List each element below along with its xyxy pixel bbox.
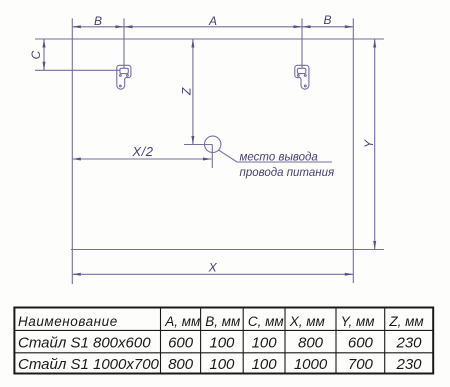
table vertical lines	[14, 308, 433, 374]
mirror top edge	[35, 38, 384, 40]
mirror bottom edge	[71, 249, 384, 251]
circle level tick	[184, 144, 212, 146]
C extension line	[35, 69, 120, 71]
table grid	[14, 308, 433, 374]
svg-text:100: 100	[209, 356, 235, 373]
svg-text:провода питания: провода питания	[240, 167, 335, 179]
svg-text:Z, мм: Z, мм	[388, 314, 423, 329]
svg-text:800: 800	[168, 356, 194, 373]
svg-text:600: 600	[348, 335, 374, 352]
arrows Y	[373, 39, 376, 48]
svg-text:Наименование: Наименование	[18, 314, 118, 329]
mirror left edge	[71, 18, 73, 284]
svg-text:1000: 1000	[294, 356, 328, 373]
svg-text:700: 700	[348, 356, 374, 373]
svg-text:230: 230	[395, 356, 422, 373]
cable outlet circle	[205, 136, 221, 152]
table text	[18, 314, 424, 329]
left bracket center line	[123, 18, 125, 68]
svg-text:Y, мм: Y, мм	[341, 314, 375, 329]
svg-text:A, мм: A, мм	[164, 314, 200, 329]
table outer border	[14, 308, 433, 374]
Z dimension line	[192, 39, 194, 145]
svg-text:X/2: X/2	[131, 144, 153, 159]
svg-text:C: C	[29, 50, 43, 59]
dimension labels	[29, 13, 376, 275]
X dimension line	[72, 273, 353, 275]
svg-text:Z: Z	[180, 87, 194, 96]
svg-text:место вывода: место вывода	[240, 152, 318, 164]
svg-text:A: A	[208, 14, 217, 28]
right mounting bracket (mirrored)	[295, 65, 309, 89]
svg-text:X, мм: X, мм	[289, 314, 325, 329]
svg-text:X: X	[208, 261, 218, 275]
svg-text:Стайл S1 800x600: Стайл S1 800x600	[18, 335, 151, 352]
top dimension line B-A-B	[72, 26, 353, 28]
arrows Z	[191, 39, 194, 48]
leader line	[219, 150, 332, 162]
line below circle	[211, 145, 213, 169]
svg-text:B, мм: B, мм	[205, 314, 240, 329]
X/2 dimension line	[72, 158, 211, 160]
arrow B left	[72, 25, 81, 28]
arrows at right bracket	[294, 25, 303, 28]
arrows at left bracket	[116, 25, 125, 28]
arrows	[43, 25, 377, 275]
arrows X/2	[72, 158, 81, 161]
svg-text:Стайл S1 1000x700: Стайл S1 1000x700	[18, 356, 160, 373]
svg-text:B: B	[323, 13, 331, 27]
table horizontal lines	[14, 329, 433, 331]
arrow B right	[345, 25, 354, 28]
svg-text:600: 600	[168, 335, 194, 352]
svg-text:C, мм: C, мм	[248, 314, 284, 329]
left mounting bracket	[117, 65, 131, 89]
svg-text:B: B	[94, 14, 102, 28]
arrows X	[72, 273, 81, 276]
svg-text:Y: Y	[362, 139, 376, 148]
C dimension line	[43, 39, 45, 70]
svg-text:230: 230	[395, 335, 422, 352]
svg-text:100: 100	[209, 335, 235, 352]
mirror right edge	[352, 18, 354, 283]
svg-text:800: 800	[298, 335, 324, 352]
svg-text:100: 100	[252, 335, 278, 352]
arrows C	[43, 39, 46, 48]
Y dimension line	[374, 39, 376, 250]
right bracket center line	[301, 18, 303, 68]
svg-text:100: 100	[252, 356, 278, 373]
